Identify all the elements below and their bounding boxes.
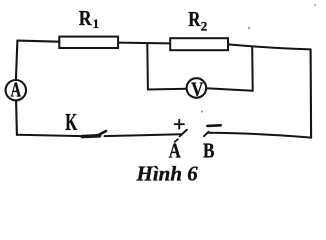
label R2	[188, 7, 207, 34]
svg-text:2: 2	[201, 19, 208, 34]
wire bottom right (corner to terminal B)	[208, 133, 311, 138]
label K	[65, 110, 77, 136]
wire switch to terminal A	[105, 134, 182, 136]
voltmeter branch left vertical wire	[146, 44, 149, 90]
node A label	[169, 139, 182, 163]
wire R1 to R2	[118, 42, 170, 45]
wire R2 to top-right corner	[228, 44, 311, 49]
voltmeter V circle	[187, 78, 207, 98]
svg-text:V: V	[191, 78, 204, 100]
node B label	[203, 139, 215, 163]
svg-text:A: A	[169, 139, 182, 163]
svg-text:A: A	[11, 77, 22, 101]
ammeter U-A circle	[6, 80, 26, 100]
wire right vertical	[310, 50, 313, 138]
resistor R2	[170, 38, 228, 50]
voltmeter branch bottom-right wire	[206, 88, 252, 91]
wire top horizontal left (corner to R1)	[17, 41, 59, 42]
switch K blade	[82, 134, 99, 138]
voltmeter letter	[191, 78, 204, 100]
scan speck dots	[201, 4, 316, 113]
voltmeter branch bottom-left wire	[148, 88, 187, 91]
caption Hinh 6	[136, 162, 199, 186]
wire ammeter to bottom-left corner	[15, 101, 18, 135]
voltmeter branch right vertical wire	[251, 47, 254, 91]
small accent mark above node A	[175, 139, 178, 142]
terminal A tick	[180, 130, 187, 137]
terminal B tick	[204, 132, 209, 136]
label R1	[79, 6, 99, 31]
svg-text:R: R	[188, 7, 201, 31]
svg-text:K: K	[65, 110, 77, 136]
resistor R1	[59, 37, 118, 48]
svg-text:R: R	[79, 6, 92, 30]
svg-text:B: B	[203, 139, 215, 163]
ammeter letter	[11, 77, 22, 101]
plus sign of terminal A	[175, 120, 184, 129]
minus sign of terminal B	[207, 124, 220, 127]
wire top-left vertical (corner to ammeter)	[16, 41, 18, 80]
svg-text:Hình 6: Hình 6	[136, 162, 199, 186]
svg-text:1: 1	[93, 16, 100, 31]
wire bottom left (corner to switch)	[17, 135, 83, 136]
